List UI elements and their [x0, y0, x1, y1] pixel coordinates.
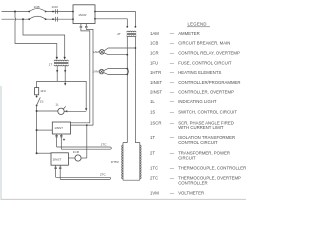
- arrowhead into light right: [64, 110, 67, 112]
- svg-text:HEATING ELEMENTS: HEATING ELEMENTS: [178, 70, 221, 75]
- svg-text:—: —: [170, 176, 175, 181]
- arrowhead into 1T left: [56, 57, 58, 60]
- voltmeter 1VM probe: [92, 68, 128, 76]
- legend title: [187, 22, 210, 27]
- legend 1S: [150, 110, 237, 115]
- wire 1T secondary left to control bus: [56, 66, 58, 82]
- legend 1AM: [150, 31, 200, 36]
- wire L1 incoming: [2, 11, 30, 13]
- svg-text:2INST: 2INST: [53, 157, 62, 161]
- page frame (scan edge, light): [1, 86, 246, 199]
- svg-text:WITH CURRENT LIMIT: WITH CURRENT LIMIT: [178, 125, 224, 130]
- svg-text:CIRCUIT: CIRCUIT: [178, 156, 196, 161]
- wire feed to 1INST: [37, 129, 53, 131]
- svg-text:1AM: 1AM: [93, 50, 100, 54]
- indicating light 1L: [55, 103, 65, 115]
- svg-text:—: —: [170, 110, 175, 115]
- SCR power controller U 1SCR: [72, 5, 96, 24]
- svg-text:1FU: 1FU: [150, 61, 158, 66]
- svg-text:1FU: 1FU: [40, 89, 46, 93]
- svg-text:1AM: 1AM: [150, 31, 159, 36]
- arrowhead secondary right tip: [64, 83, 66, 86]
- relay coil 1CR: [68, 150, 86, 161]
- svg-text:—: —: [170, 41, 175, 46]
- svg-text:CONTROL RELAY, OVERTEMP: CONTROL RELAY, OVERTEMP: [178, 51, 240, 56]
- wire after breaker L2: [46, 18, 73, 20]
- svg-text:—: —: [170, 51, 175, 56]
- wire light to bus drop: [64, 110, 86, 112]
- legend 1INST: [150, 80, 241, 85]
- node 1INST feed: [36, 129, 38, 131]
- svg-text:LEGEND: LEGEND: [188, 22, 207, 27]
- svg-text:1CB: 1CB: [150, 41, 158, 46]
- svg-text:CIRCUIT BREAKER, MAIN: CIRCUIT BREAKER, MAIN: [178, 41, 230, 46]
- wire 1SCR out bottom to 2T: [95, 19, 128, 28]
- svg-text:1SCR: 1SCR: [150, 120, 161, 125]
- svg-text:—: —: [170, 31, 175, 36]
- transformer 1T: [49, 60, 69, 66]
- wire fuse to switch: [36, 95, 38, 98]
- svg-text:VOLTMETER: VOLTMETER: [178, 191, 204, 196]
- legend 1TC: [150, 166, 246, 171]
- wire feed to 2INST: [37, 152, 51, 154]
- svg-text:—: —: [170, 151, 175, 156]
- legend 2TC: [150, 176, 241, 186]
- transformer 2T: [117, 31, 136, 37]
- svg-text:—: —: [170, 191, 175, 196]
- node L1 junction: [14, 11, 16, 13]
- legend 1CB: [150, 41, 230, 46]
- svg-text:1INST: 1INST: [54, 126, 63, 130]
- legend 1SCR: [150, 120, 234, 130]
- arrowhead on secondary left: [56, 70, 58, 73]
- legend 1T: [150, 135, 235, 145]
- svg-text:1CB: 1CB: [34, 5, 40, 9]
- svg-text:—: —: [170, 120, 175, 125]
- wire after breaker L1: [46, 11, 73, 13]
- svg-text:1VM: 1VM: [150, 191, 159, 196]
- wire phase B feed to 1T: [23, 19, 65, 58]
- svg-text:1L: 1L: [150, 99, 155, 104]
- svg-text:THERMOCOUPLE, CONTROLLER: THERMOCOUPLE, CONTROLLER: [178, 166, 246, 171]
- svg-text:1T: 1T: [49, 62, 53, 66]
- svg-text:FUSE, CONTROL CIRCUIT: FUSE, CONTROL CIRCUIT: [178, 61, 232, 66]
- svg-text:1CR: 1CR: [52, 5, 59, 9]
- legend 1VM: [150, 191, 204, 196]
- svg-text:CONTROLLER: CONTROLLER: [178, 180, 207, 185]
- legend 2INST: [150, 89, 234, 94]
- wire 2TC cable pair: [56, 172, 111, 179]
- svg-text:1T: 1T: [150, 135, 155, 140]
- wire control bus: [37, 81, 87, 110]
- svg-text:1TC: 1TC: [150, 166, 158, 171]
- svg-text:—: —: [170, 61, 175, 66]
- wire 2INST thermocouple stubs: [54, 165, 61, 179]
- svg-text:1L: 1L: [55, 103, 59, 107]
- svg-text:—: —: [170, 166, 175, 171]
- node 2INST feed: [36, 152, 38, 154]
- controller/programmer 1INST: [52, 122, 70, 134]
- wire to indicating light: [37, 110, 58, 112]
- circuit breaker 1CB: [28, 5, 46, 20]
- wire heater conductor right: [135, 37, 139, 143]
- legend 1L: [150, 99, 217, 104]
- arrowhead into 1T right: [64, 57, 66, 60]
- svg-text:—: —: [170, 80, 175, 85]
- switch 1S: [36, 97, 44, 106]
- svg-text:SWITCH, CONTROL CIRCUIT: SWITCH, CONTROL CIRCUIT: [178, 110, 237, 115]
- legend 1FU: [150, 61, 232, 66]
- svg-text:1CR: 1CR: [73, 150, 80, 154]
- svg-text:2TC: 2TC: [100, 172, 107, 176]
- ammeter 1AM probe: [93, 47, 137, 56]
- arrowhead on secondary right: [64, 70, 66, 73]
- legend 1CR: [150, 51, 240, 56]
- contacts 1CR in power lines: [52, 5, 59, 22]
- svg-text:AMMETER: AMMETER: [178, 31, 200, 36]
- wire switch down left rail: [36, 106, 38, 154]
- legend 2T: [150, 151, 230, 161]
- svg-text:1S: 1S: [40, 100, 44, 104]
- svg-text:1SCR: 1SCR: [78, 13, 87, 17]
- wire phase A feed to 1T: [15, 12, 57, 59]
- svg-text:—: —: [170, 99, 175, 104]
- wire L2 incoming: [2, 18, 30, 20]
- svg-text:1CR: 1CR: [150, 51, 159, 56]
- wire 1INST thermocouple stubs: [55, 134, 65, 149]
- svg-text:1HTR: 1HTR: [111, 160, 120, 164]
- wire heater conductor left: [123, 37, 127, 143]
- svg-text:1HTR: 1HTR: [150, 70, 161, 75]
- wire SCR gate stub 2: [71, 24, 94, 126]
- fuse 1FU: [35, 88, 46, 95]
- overtemp controller 2INST: [51, 153, 68, 165]
- arrowhead bus right drop: [85, 108, 87, 111]
- node L2 junction: [22, 18, 24, 20]
- svg-text:2INST: 2INST: [150, 89, 163, 94]
- svg-text:2TC: 2TC: [150, 176, 158, 181]
- svg-text:1S: 1S: [150, 110, 155, 115]
- svg-text:INDICATING LIGHT: INDICATING LIGHT: [178, 99, 217, 104]
- svg-text:CONTROL CIRCUIT: CONTROL CIRCUIT: [178, 140, 218, 145]
- svg-text:—: —: [170, 135, 175, 140]
- svg-text:CONTROLLER/PROGRAMMER: CONTROLLER/PROGRAMMER: [178, 80, 240, 85]
- svg-text:—: —: [170, 70, 175, 75]
- wire SCR gate stub 1: [71, 24, 90, 123]
- legend 1HTR: [150, 70, 221, 75]
- svg-text:2T: 2T: [150, 151, 155, 156]
- wire 1T secondary right stub: [64, 66, 66, 84]
- node light tap: [36, 110, 38, 112]
- wire 1SCR out top to 2T: [95, 12, 136, 28]
- svg-text:1INST: 1INST: [150, 80, 163, 85]
- svg-text:CONTROLLER, OVERTEMP: CONTROLLER, OVERTEMP: [178, 89, 234, 94]
- svg-text:2T: 2T: [117, 32, 121, 36]
- svg-text:1TC: 1TC: [101, 143, 108, 147]
- heating elements 1HTR: [111, 143, 142, 181]
- svg-text:—: —: [170, 89, 175, 94]
- wire 1CR riser: [86, 124, 88, 158]
- wire 1TC cable pair: [57, 143, 112, 150]
